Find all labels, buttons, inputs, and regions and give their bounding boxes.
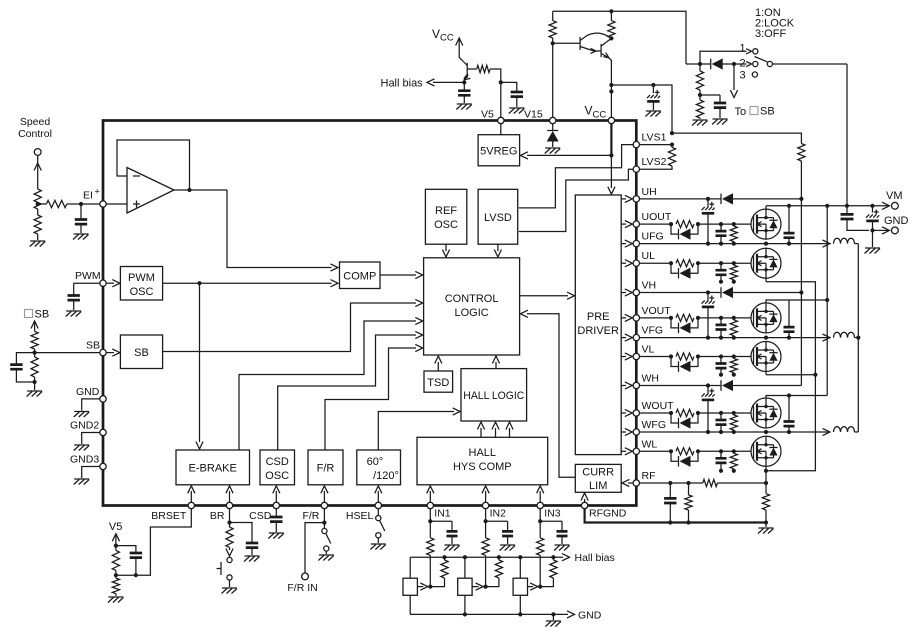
svg-text:VFG: VFG xyxy=(642,325,664,337)
pin WFG xyxy=(633,429,639,435)
pin GND2 xyxy=(100,429,106,435)
diode into switch xyxy=(686,63,711,65)
wire: COMP to CONTROL LOGIC xyxy=(380,274,416,276)
svg-text:CURR: CURR xyxy=(582,467,614,479)
wire: PWM pin to PWM OSC xyxy=(106,282,114,284)
ground below BR cap xyxy=(244,556,260,562)
transistor Q2 (darlington input) xyxy=(553,42,580,44)
pin WOUT xyxy=(633,410,639,416)
svg-text:60°: 60° xyxy=(367,456,384,468)
hall element 2 xyxy=(458,578,472,595)
wire: E-BRAKE to CONTROL LOGIC xyxy=(239,321,416,450)
wire: PRE DRIVER to pin VFG xyxy=(621,337,626,339)
wire: F/R pin to F/R block xyxy=(323,491,325,503)
motor coil W xyxy=(823,428,831,435)
svg-text:OSC: OSC xyxy=(130,286,154,298)
boost capacitor U (polarized) xyxy=(707,199,709,207)
wire: PRE DRIVER to pin UOUT xyxy=(621,223,626,225)
ground stub GND2 pin xyxy=(82,433,100,445)
ground below pot xyxy=(30,241,46,247)
capacitor at EI+ xyxy=(80,204,82,220)
wire: IN1 pin to HALL HYS COMP xyxy=(429,491,431,503)
gate pulldown resistor W low xyxy=(733,451,735,453)
wire U low source rail xyxy=(766,282,815,375)
switch HSEL xyxy=(377,509,379,516)
ground below PWM cap xyxy=(66,311,82,317)
transistor Q1 hall-bias follower xyxy=(466,63,468,78)
boost capacitor V (polarized) xyxy=(707,293,709,301)
transistor Q3 (darlington output) xyxy=(600,44,602,57)
svg-text:GND3: GND3 xyxy=(70,454,99,466)
series resistor IN2 xyxy=(482,538,489,556)
pin RFGND xyxy=(581,502,587,508)
RFGND trace xyxy=(585,509,766,523)
wire + series resistor to EI+ xyxy=(38,203,47,205)
capacitor at BR xyxy=(230,523,253,544)
pin BRSET xyxy=(188,502,194,508)
wire: TSD to CONTROL LOGIC xyxy=(437,362,439,371)
svg-text:SB: SB xyxy=(35,309,50,321)
shunt resistor RF xyxy=(765,471,767,494)
svg-text:V5: V5 xyxy=(481,109,494,121)
capacitor parallel (SB) xyxy=(16,353,34,365)
capacitor at CSD xyxy=(275,509,277,518)
svg-text:GND: GND xyxy=(884,215,909,227)
svg-text:F/R: F/R xyxy=(317,463,335,475)
arrow up to VCC xyxy=(456,38,463,46)
ground below IN3 cap xyxy=(554,545,570,551)
resistor SB node to ground xyxy=(31,357,38,377)
wire V low source rail xyxy=(766,374,815,376)
block PWM OSC xyxy=(120,267,162,301)
svg-text:Speed: Speed xyxy=(20,116,51,128)
pin LVS1 xyxy=(633,141,639,147)
wire: PRE DRIVER to pin VH xyxy=(621,292,626,294)
gate resistor+diode V high xyxy=(640,317,672,319)
IN3 node + filter xyxy=(539,509,541,538)
svg-text:V5: V5 xyxy=(109,521,122,533)
svg-text:TSD: TSD xyxy=(427,377,449,389)
GND terminal xyxy=(873,229,889,231)
series resistor IN1 xyxy=(427,538,434,556)
Hall bias arrow (top) xyxy=(433,81,464,83)
svg-text:Control: Control xyxy=(18,128,52,140)
block CONTROL LOGIC xyxy=(424,258,520,355)
wire: IN2 pin to HALL HYS COMP xyxy=(485,491,487,503)
svg-text:SB: SB xyxy=(86,340,100,352)
ground below VM caps xyxy=(872,230,874,247)
ground below CSD cap xyxy=(268,533,284,539)
wire: op-amp output to COMP xyxy=(227,190,332,268)
resistor above V15 xyxy=(549,21,556,38)
wire: tap down to E-BRAKE xyxy=(199,283,201,442)
wire: 60/120 to HALL LOGIC xyxy=(378,412,454,451)
gate pulldown resistor W high xyxy=(733,413,735,415)
svg-text:/120°: /120° xyxy=(373,470,399,482)
block 5VREG xyxy=(478,135,519,166)
svg-text:UOUT: UOUT xyxy=(642,211,672,223)
pushbutton BR xyxy=(227,557,232,562)
svg-text:GND: GND xyxy=(578,609,602,621)
gate resistor+diode U low xyxy=(640,262,672,264)
ground stub GND3 pin xyxy=(82,467,100,479)
pin WH xyxy=(633,382,639,388)
svg-text:V: V xyxy=(585,104,593,118)
pin UL xyxy=(633,260,639,266)
svg-text:OSC: OSC xyxy=(434,219,458,231)
pin EI+ xyxy=(100,201,106,207)
capacitor at emitter xyxy=(463,82,465,90)
VM bus to V drain xyxy=(826,206,828,396)
resistor above VCC xyxy=(608,21,615,38)
ground below IN2 cap xyxy=(500,545,515,551)
BR node xyxy=(229,509,231,528)
MOSFET V low-side xyxy=(751,342,781,372)
ground below pushbutton xyxy=(229,580,231,587)
hall element 1 xyxy=(403,578,417,595)
wire: CURR LIM to CONTROL LOGIC xyxy=(527,314,575,477)
capacitor at V5 node xyxy=(501,82,517,92)
block HALL HYS COMP xyxy=(417,437,548,485)
wire VH row xyxy=(640,292,722,294)
pin UH xyxy=(633,196,639,202)
svg-text:PWM: PWM xyxy=(75,270,101,282)
gate capacitor U low xyxy=(720,263,722,270)
svg-text:WH: WH xyxy=(642,373,660,385)
gate capacitor W high xyxy=(720,413,722,420)
filter capacitor at VM xyxy=(846,206,848,215)
ground stub GND pin xyxy=(82,399,100,411)
wire: LVS1 external xyxy=(640,144,673,146)
gate resistor+diode W low xyxy=(640,450,672,452)
capacitor at PWM pin xyxy=(74,282,100,284)
gate resistor+diode U high xyxy=(640,223,672,225)
VM rail xyxy=(766,205,888,207)
pin PWM xyxy=(100,280,106,286)
gate pulldown resistor V high xyxy=(733,318,735,320)
wire: EI+ to op-amp xyxy=(106,203,127,205)
resistor V5 divider lower xyxy=(112,578,119,594)
block REF OSC xyxy=(425,189,466,244)
block HALL LOGIC xyxy=(461,369,527,421)
F/R external node xyxy=(323,509,325,529)
boost capacitor W (polarized) xyxy=(707,386,709,394)
pin VFG xyxy=(633,334,639,340)
capacitor beside xyxy=(700,94,720,96)
wire: CSD OSC to CONTROL LOGIC xyxy=(278,335,416,450)
svg-text:3:OFF: 3:OFF xyxy=(755,28,786,40)
resistor to ground xyxy=(696,100,703,118)
wire: F/R to CONTROL LOGIC xyxy=(325,348,416,450)
svg-text:OSC: OSC xyxy=(265,470,289,482)
svg-text:3: 3 xyxy=(740,70,746,82)
MOSFET U low-side xyxy=(751,248,781,278)
wire: BR pin to E-BRAKE xyxy=(229,491,231,503)
wire: VCC to PRE DRIVER and 5VREG xyxy=(610,123,612,155)
capacitor at IN2 xyxy=(486,520,508,522)
boost bus vertical xyxy=(800,199,802,386)
wire U high drain to VM rail xyxy=(765,206,767,209)
svg-text:WOUT: WOUT xyxy=(642,400,675,412)
pin VL xyxy=(633,353,639,359)
svg-text:VH: VH xyxy=(642,280,657,292)
svg-text:LVS2: LVS2 xyxy=(642,156,667,168)
block PRE DRIVER xyxy=(575,195,621,455)
pin UOUT xyxy=(633,221,639,227)
wire: CSD pin to CSD OSC xyxy=(275,491,277,503)
wire U low source to rail xyxy=(765,279,767,282)
arrow to SB net + resistor xyxy=(31,321,38,329)
svg-text:GND2: GND2 xyxy=(70,420,99,432)
svg-text:+: + xyxy=(95,187,100,197)
wire: PWM OSC to COMP with E-BRAKE tap xyxy=(163,282,332,284)
pin GND xyxy=(100,396,106,402)
wire W high drain xyxy=(766,396,827,398)
wire: PRE DRIVER to pin WFG xyxy=(621,431,626,433)
block SB xyxy=(120,335,162,369)
wire: PRE DRIVER to pin VOUT xyxy=(621,317,626,319)
svg-text:V: V xyxy=(432,27,440,41)
gate pulldown resistor U low xyxy=(733,263,735,265)
ground at shunt xyxy=(765,523,767,528)
svg-text:F/R: F/R xyxy=(302,510,319,522)
ground below EI+ cap xyxy=(73,234,89,240)
svg-text:IN2: IN2 xyxy=(490,508,507,520)
wire: LVS1 internal to LVSD xyxy=(519,145,633,208)
MOSFET W high-side xyxy=(751,398,781,428)
boost diode UH row xyxy=(720,194,722,205)
svg-text:DRIVER: DRIVER xyxy=(577,325,619,337)
wire V high drain xyxy=(766,300,827,302)
ground below IN1 cap xyxy=(444,545,460,551)
block LVSD xyxy=(478,189,518,244)
block COMP xyxy=(340,262,381,289)
svg-text:E-BRAKE: E-BRAKE xyxy=(189,463,237,475)
wire: PRE DRIVER to pin VL xyxy=(621,356,626,358)
wire UH row xyxy=(640,198,722,200)
pin UFG xyxy=(633,240,639,246)
wire WH row xyxy=(640,385,722,387)
VM terminal xyxy=(892,202,899,209)
resistor below switch node xyxy=(696,71,703,90)
switch pole + arm xyxy=(767,61,772,66)
block E-BRAKE xyxy=(176,450,250,485)
label SB net (left) xyxy=(25,310,33,318)
svg-text:1: 1 xyxy=(740,43,746,55)
wire: PRE DRIVER to pin UL xyxy=(621,262,626,264)
block F/R xyxy=(308,450,343,485)
capacitor at IN1 xyxy=(430,520,452,522)
MOSFET W low-side xyxy=(751,436,781,466)
wire: CONTROL LOGIC to PRE DRIVER xyxy=(520,295,568,297)
svg-text:LVS1: LVS1 xyxy=(642,132,667,144)
RF filter resistor xyxy=(688,483,690,495)
resistor lower half of pot xyxy=(34,215,41,234)
motor coil V xyxy=(823,334,831,341)
svg-text:To: To xyxy=(735,106,747,118)
gate pulldown resistor V low xyxy=(733,357,735,359)
svg-text:BRSET: BRSET xyxy=(151,510,187,522)
gate capacitor W low xyxy=(720,451,722,458)
pin LVS2 xyxy=(633,166,639,172)
wire: SB box to CONTROL LOGIC xyxy=(163,303,416,352)
wire: PRE DRIVER to pin UH xyxy=(621,198,626,200)
wire U phase row xyxy=(640,243,829,245)
IN2 node + filter xyxy=(485,509,487,538)
series resistor IN3 xyxy=(537,538,544,556)
svg-text:HALL LOGIC: HALL LOGIC xyxy=(463,390,524,402)
top supply rail xyxy=(553,11,686,64)
svg-text:CSD: CSD xyxy=(249,510,272,522)
gate resistor+diode W high xyxy=(640,412,672,414)
wire W low source to rail xyxy=(765,467,767,471)
wire: LVSD to CONTROL LOGIC xyxy=(497,244,499,251)
pin CSD xyxy=(273,502,279,508)
resistor boost feed xyxy=(798,144,805,162)
ground below V5 cap xyxy=(509,108,525,114)
RF filter capacitor xyxy=(669,483,671,498)
wire: SB pin to SB block xyxy=(106,352,114,354)
svg-text:Hall bias: Hall bias xyxy=(381,78,424,90)
wire: HSEL pin to 60/120 block xyxy=(377,491,379,503)
wire V phase row xyxy=(640,337,829,339)
svg-text:5VREG: 5VREG xyxy=(480,146,517,158)
IC body outline xyxy=(103,121,636,506)
pin BR xyxy=(226,502,232,508)
pin VOUT xyxy=(633,315,639,321)
MOSFET V high-side xyxy=(751,303,781,333)
block 60/120 xyxy=(357,450,401,485)
svg-text:VM: VM xyxy=(886,190,903,202)
ground below polarized cap xyxy=(645,111,661,117)
polarized capacitor at darlington emitter xyxy=(611,84,653,86)
svg-text:HALL: HALL xyxy=(469,447,497,459)
svg-text:UH: UH xyxy=(642,186,657,198)
wire V low source to rail xyxy=(765,372,767,375)
snubber capacitor U xyxy=(788,206,790,233)
pin VH xyxy=(633,289,639,295)
wire: PRE DRIVER to pin WH xyxy=(621,385,626,387)
svg-text:RF: RF xyxy=(642,470,656,482)
base resistor Q1 xyxy=(467,68,477,70)
resistor V5 divider upper xyxy=(112,550,119,570)
wire: IN3 pin to HALL HYS COMP xyxy=(539,491,541,503)
resistor BR xyxy=(226,527,233,547)
ground below divider xyxy=(108,597,124,603)
pin IN2 xyxy=(482,502,488,508)
pin SB xyxy=(100,349,106,355)
switch F/R xyxy=(322,528,327,533)
svg-text:F/R IN: F/R IN xyxy=(287,582,317,594)
wire W low source rail xyxy=(766,375,815,471)
svg-text:LIM: LIM xyxy=(589,480,607,492)
ground below F/R switch xyxy=(318,555,334,561)
wire: PRE DRIVER to pin WOUT xyxy=(621,412,626,414)
block CSD OSC xyxy=(260,450,295,485)
wire BRSET to divider xyxy=(116,509,191,576)
svg-text:PRE: PRE xyxy=(587,311,610,323)
svg-text:WFG: WFG xyxy=(642,419,667,431)
Hall bias rail xyxy=(410,556,563,558)
pin V5 xyxy=(498,117,504,123)
motor common vertical xyxy=(857,244,859,432)
wire: HALL LOGIC to CONTROL LOGIC xyxy=(495,362,497,369)
RF sense row xyxy=(640,482,703,484)
resistor LVS1-LVS2 xyxy=(668,147,675,166)
hall GND rail xyxy=(410,613,568,615)
pin HSEL xyxy=(375,502,381,508)
wire: PRE DRIVER to pin WL xyxy=(621,450,626,452)
wire: emitter node to LVS rail xyxy=(653,85,672,133)
wire: RFGND pin to CURR LIM xyxy=(584,499,586,502)
ground below emitter cap xyxy=(456,104,472,110)
hall element 3 xyxy=(513,578,527,595)
wire: LVS2 internal to LVSD xyxy=(519,169,633,231)
pin V15 xyxy=(550,117,556,123)
capacitor across divider xyxy=(116,546,136,553)
MOSFET U high-side xyxy=(751,209,781,239)
svg-text:CC: CC xyxy=(593,110,607,121)
block CURR LIM xyxy=(575,464,621,492)
motor coil U xyxy=(823,240,831,247)
svg-text:VOUT: VOUT xyxy=(642,305,672,317)
snubber capacitor V xyxy=(788,300,790,327)
V5 arrow + divider xyxy=(112,534,119,542)
wire: BRSET pin to E-BRAKE xyxy=(190,491,192,503)
pin VCC (top) xyxy=(608,117,614,123)
wire: RF pin to CURR LIM xyxy=(628,482,633,484)
svg-text:RFGND: RFGND xyxy=(589,508,627,520)
gate capacitor V low xyxy=(720,357,722,364)
svg-text:COMP: COMP xyxy=(343,271,376,283)
zener diode at V15 pin xyxy=(552,123,554,130)
svg-text:BR: BR xyxy=(210,510,225,522)
wire: REF OSC to CONTROL LOGIC xyxy=(445,244,447,251)
wire: PRE DRIVER to pin UFG xyxy=(621,243,626,245)
svg-text:IN3: IN3 xyxy=(544,508,561,520)
wire W phase row xyxy=(640,431,829,433)
gate pulldown resistor U high xyxy=(733,224,735,226)
hall element 2 connections xyxy=(464,557,466,578)
pin IN1 xyxy=(427,502,433,508)
svg-text:WL: WL xyxy=(642,438,658,450)
svg-text:LVSD: LVSD xyxy=(484,212,512,224)
svg-text:HSEL: HSEL xyxy=(346,510,374,522)
potentiometer: speed control xyxy=(37,155,39,189)
wire: SB external node to SB pin xyxy=(35,352,100,354)
svg-text:EI: EI xyxy=(83,190,93,202)
wires: HALL HYS COMP to HALL LOGIC (3) xyxy=(480,428,482,437)
svg-text:2: 2 xyxy=(740,58,746,70)
wire: V5 pin into 5VREG xyxy=(500,123,502,135)
snubber capacitor W xyxy=(788,396,790,422)
op-amp U1 (speed error amp) xyxy=(117,140,227,213)
pin RF xyxy=(633,480,639,486)
wire to F/R IN terminal xyxy=(305,523,324,573)
hall bias pull resistors xyxy=(444,557,446,560)
pin IN3 xyxy=(537,502,543,508)
svg-text:VL: VL xyxy=(642,344,655,356)
pin WL xyxy=(633,448,639,454)
svg-text:PWM: PWM xyxy=(128,272,155,284)
svg-text:HYS COMP: HYS COMP xyxy=(453,461,512,473)
ground below SB network xyxy=(34,382,36,390)
svg-text:CSD: CSD xyxy=(266,456,289,468)
ground below HSEL switch xyxy=(370,544,386,550)
hall element 1 connections xyxy=(409,557,411,578)
gate capacitor U high xyxy=(720,224,722,231)
svg-text:SB: SB xyxy=(760,106,775,118)
